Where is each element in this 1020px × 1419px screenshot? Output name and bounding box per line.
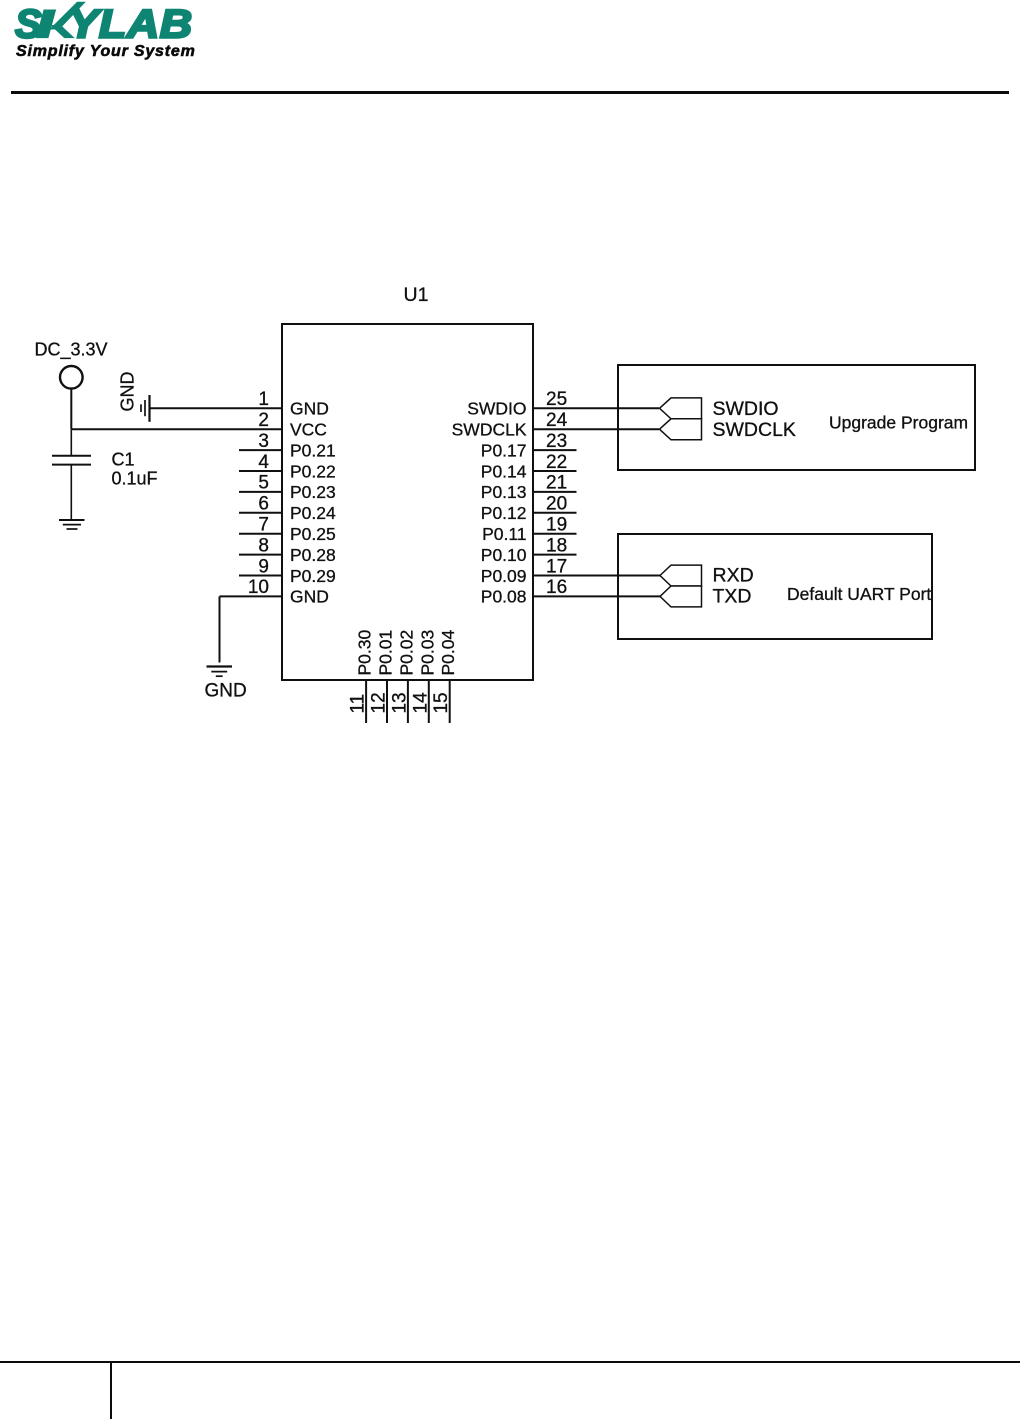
svg-text:4: 4	[258, 452, 269, 473]
svg-text:11: 11	[348, 694, 369, 714]
svg-text:RXD: RXD	[713, 565, 754, 587]
svg-text:9: 9	[258, 556, 269, 577]
svg-text:8: 8	[258, 535, 269, 556]
svg-text:P0.10: P0.10	[481, 545, 527, 565]
svg-text:18: 18	[546, 535, 567, 556]
svg-text:21: 21	[546, 473, 567, 494]
svg-text:P0.23: P0.23	[290, 482, 336, 502]
svg-text:13: 13	[389, 692, 410, 713]
svg-text:C1: C1	[112, 450, 135, 470]
svg-text:P0.02: P0.02	[396, 630, 416, 676]
svg-text:17: 17	[546, 556, 567, 577]
svg-text:P0.12: P0.12	[481, 503, 527, 523]
svg-text:P0.09: P0.09	[481, 566, 527, 586]
svg-text:10: 10	[248, 577, 269, 598]
svg-text:P0.01: P0.01	[376, 630, 396, 676]
svg-text:U1: U1	[404, 284, 429, 306]
svg-text:SWDCLK: SWDCLK	[713, 419, 796, 441]
svg-text:P0.08: P0.08	[481, 587, 527, 607]
svg-text:GND: GND	[205, 681, 247, 702]
svg-text:24: 24	[546, 410, 568, 431]
svg-text:TXD: TXD	[713, 586, 752, 608]
svg-text:SWDIO: SWDIO	[713, 398, 779, 420]
svg-text:2: 2	[258, 410, 269, 431]
svg-text:20: 20	[546, 494, 567, 515]
svg-text:P0.04: P0.04	[438, 630, 458, 676]
svg-text:22: 22	[546, 452, 567, 473]
svg-text:SWDCLK: SWDCLK	[452, 420, 527, 440]
svg-text:14: 14	[410, 692, 431, 714]
svg-text:25: 25	[546, 389, 567, 410]
svg-text:P0.24: P0.24	[290, 503, 336, 523]
svg-text:0.1uF: 0.1uF	[112, 469, 158, 489]
svg-text:VCC: VCC	[290, 420, 327, 440]
svg-text:Upgrade Program: Upgrade Program	[829, 413, 968, 433]
svg-text:P0.03: P0.03	[417, 630, 437, 676]
svg-text:15: 15	[431, 692, 452, 713]
svg-text:1: 1	[258, 389, 269, 410]
svg-text:3: 3	[258, 431, 269, 452]
svg-text:7: 7	[258, 515, 269, 536]
svg-text:23: 23	[546, 431, 567, 452]
svg-text:P0.21: P0.21	[290, 440, 336, 460]
svg-text:GND: GND	[118, 372, 138, 412]
svg-text:P0.22: P0.22	[290, 461, 336, 481]
svg-text:16: 16	[546, 577, 567, 598]
svg-text:SWDIO: SWDIO	[467, 399, 526, 419]
svg-text:12: 12	[369, 692, 390, 713]
svg-text:DC_3.3V: DC_3.3V	[35, 340, 108, 361]
svg-text:P0.14: P0.14	[481, 461, 527, 481]
svg-text:P0.11: P0.11	[482, 524, 526, 544]
svg-text:19: 19	[546, 515, 567, 536]
svg-text:P0.28: P0.28	[290, 545, 336, 565]
svg-text:Default UART Port: Default UART Port	[787, 584, 931, 604]
svg-text:P0.30: P0.30	[355, 630, 375, 676]
svg-text:GND: GND	[290, 587, 329, 607]
svg-text:P0.13: P0.13	[481, 482, 527, 502]
svg-text:P0.25: P0.25	[290, 524, 336, 544]
svg-text:P0.17: P0.17	[481, 440, 527, 460]
svg-text:6: 6	[258, 494, 269, 515]
svg-text:5: 5	[258, 473, 269, 494]
svg-text:P0.29: P0.29	[290, 566, 336, 586]
svg-text:GND: GND	[290, 399, 329, 419]
